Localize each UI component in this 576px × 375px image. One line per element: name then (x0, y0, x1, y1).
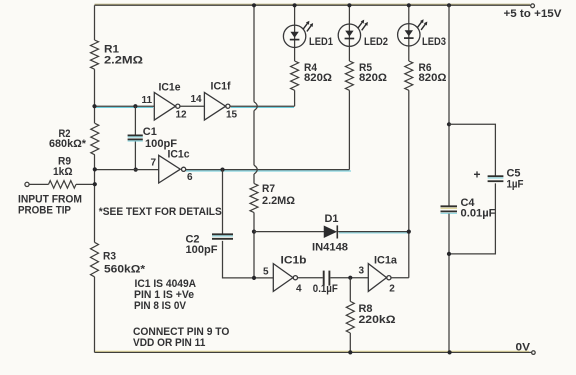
wire pin7 input (left rail to IC1c) (95, 169, 159, 171)
label *SEE TEXT FOR DETAILS (99, 206, 222, 218)
pin label 4 (296, 284, 302, 295)
resistor R5 (345, 61, 353, 90)
svg-text:IC1e: IC1e (159, 82, 181, 94)
resistor R7 (250, 184, 258, 213)
wire left rail segment (R1 to R2) (94, 69, 96, 123)
pin label 7 (151, 157, 157, 168)
label C5 1µF (507, 167, 524, 190)
svg-text:560kΩ*: 560kΩ* (104, 263, 146, 275)
label LED3 (422, 36, 446, 48)
pin label 3 (359, 266, 365, 277)
resistor R2 (91, 123, 99, 155)
note VDD OR PIN 11 (133, 337, 205, 349)
resistor R4 (291, 61, 299, 90)
svg-text:100pF: 100pF (186, 244, 218, 256)
op-amp inverter IC1a (368, 264, 391, 292)
svg-text:LED1: LED1 (309, 36, 333, 48)
svg-text:1kΩ: 1kΩ (53, 166, 73, 178)
wire C5 top lead (449, 124, 495, 175)
svg-text:7: 7 (151, 157, 157, 168)
capacitor C4 (441, 206, 458, 213)
svg-text:1µF: 1µF (507, 178, 524, 190)
label IC1e (159, 82, 181, 94)
svg-text:4: 4 (296, 284, 302, 295)
wire hop over pin6 net (254, 165, 257, 174)
resistor R6 (405, 61, 413, 90)
label R4 820Ω (304, 62, 332, 84)
wire D1 anode lead (254, 231, 324, 233)
svg-text:0.1µF: 0.1µF (313, 283, 338, 295)
svg-text:0.01µF: 0.01µF (461, 207, 496, 219)
label R5 820Ω (359, 62, 387, 84)
wire IC1a output to LED3 branch (391, 277, 409, 279)
label C4 0.01µF (461, 197, 496, 220)
wire R8 lower lead (349, 333, 351, 352)
svg-text:*SEE TEXT FOR DETAILS: *SEE TEXT FOR DETAILS (99, 206, 222, 218)
svg-text:D1: D1 (325, 213, 339, 225)
node junction left rail / pin7 wire (93, 167, 97, 171)
wire middle rail (hop2 to R7) (253, 174, 255, 184)
node junction input / left rail (93, 182, 97, 186)
label IC1f (211, 81, 231, 93)
node junction C4 rail / 0V rail (448, 350, 452, 354)
pin label 12 (176, 109, 188, 120)
wire C2 upper lead (222, 170, 224, 234)
svg-text:PROBE TIP: PROBE TIP (18, 204, 71, 216)
svg-text:15: 15 (226, 109, 238, 120)
capacitor C2 (212, 234, 233, 239)
wire R9 to left rail (76, 183, 95, 185)
label INPUT FROM PROBE TIP (18, 194, 82, 217)
label IC1c (168, 148, 190, 160)
pin label 6 (187, 172, 193, 183)
capacitor C3 0.1uF (324, 271, 330, 286)
node junction left rail / pin11 wire (92, 104, 96, 108)
label R2 680kΩ* (49, 128, 87, 150)
node junction R8 / 0V rail (348, 350, 352, 354)
wire R8 upper lead (349, 278, 351, 302)
wire IC1b output to C3 (298, 277, 323, 279)
wire C2 lower lead and run to IC1b input (223, 241, 274, 278)
label IC1a (374, 255, 398, 267)
wire pin11 input (left rail to IC1e) (95, 106, 155, 107)
svg-text:PIN 8 IS 0V: PIN 8 IS 0V (134, 300, 187, 312)
note PIN 8 IS 0V (134, 300, 187, 312)
label LED2 (364, 36, 388, 48)
wire LED3 branch upper lead (408, 5, 410, 61)
svg-text:12: 12 (176, 109, 188, 120)
terminal +V supply (531, 4, 535, 8)
wire probe to R9 (29, 183, 48, 185)
wire C4 rail upper (448, 5, 450, 206)
label IN4148 (312, 242, 348, 254)
node junction LED3 / +V (407, 3, 411, 7)
wire C4 rail lower (448, 214, 450, 353)
svg-text:IC1b: IC1b (281, 255, 307, 267)
note PIN 1 IS +Ve (134, 289, 194, 301)
terminal 0V (532, 351, 536, 355)
svg-text:14: 14 (191, 94, 203, 105)
svg-text:+5 to +15V: +5 to +15V (504, 8, 563, 20)
pin label 11 (142, 95, 153, 106)
svg-text:IC1f: IC1f (211, 81, 231, 93)
label IC1b (281, 255, 307, 267)
label LED1 (309, 36, 333, 48)
svg-text:2: 2 (389, 284, 395, 295)
resistor R1 (91, 40, 99, 69)
node junction D1 anode branch (252, 230, 256, 234)
node junction middle rail / +V (252, 3, 256, 7)
op-amp inverter IC1c (159, 155, 186, 183)
label C2 100pF (186, 234, 218, 256)
wire left rail segment (R3 to bottom) (94, 277, 96, 353)
svg-text:VDD OR PIN 11: VDD OR PIN 11 (133, 337, 205, 349)
label +5 to +15V (504, 8, 563, 20)
svg-text:3: 3 (359, 266, 365, 277)
svg-text:IC1c: IC1c (168, 148, 190, 160)
svg-text:11: 11 (142, 95, 153, 106)
wire IC1e out to IC1f in (pin 14 net) (180, 105, 204, 107)
diode D1 (324, 225, 337, 238)
svg-text:LED3: LED3 (422, 36, 446, 48)
label 0.1µF (313, 283, 338, 295)
svg-text:R8: R8 (359, 303, 373, 315)
node junction LED2 / +V (347, 3, 351, 7)
capacitor C5 polarity + (474, 168, 481, 182)
resistor R3 (91, 242, 99, 276)
wire C1 lower lead (134, 142, 136, 170)
node junction C1 bottom / pin7 wire (134, 168, 138, 172)
wire D1 cathode to LED3 branch (338, 232, 409, 233)
resistor R9 (49, 181, 77, 189)
node junction C4 rail / +V (447, 3, 451, 7)
wire LED1 branch lower lead (R4 to pin15 net) (294, 90, 296, 106)
wire C1 upper lead (134, 106, 136, 135)
svg-text:820Ω: 820Ω (419, 72, 447, 84)
svg-text:R7: R7 (262, 183, 275, 195)
resistor R8 (346, 301, 354, 333)
wire middle rail (R7 to IC1b input net) (253, 213, 255, 278)
capacitor C5 (488, 176, 504, 181)
wire C5 bottom lead (449, 183, 495, 254)
wire middle rail (hop1 to hop2) (253, 111, 255, 166)
svg-text:IC1a: IC1a (374, 255, 398, 267)
label R6 820Ω (419, 62, 447, 84)
svg-text:LED2: LED2 (364, 36, 388, 48)
pin label 15 (226, 109, 238, 120)
wire bottom 0V rail (95, 351, 532, 352)
note IC1 IS 4049A (135, 278, 197, 290)
wire middle rail (top to hop1) (253, 5, 255, 102)
label C1 100pF (143, 126, 177, 150)
wire IC1f output to LED1 branch (230, 106, 295, 107)
svg-text:0V: 0V (516, 342, 531, 354)
svg-text:2.2MΩ: 2.2MΩ (104, 55, 143, 67)
label R1 2.2MΩ (104, 44, 143, 67)
svg-text:820Ω: 820Ω (359, 72, 387, 84)
label R3 560kΩ* (103, 251, 146, 276)
pin label 14 (191, 94, 203, 105)
svg-text:220kΩ: 220kΩ (359, 314, 396, 326)
svg-text:IN4148: IN4148 (312, 242, 348, 254)
op-amp inverter IC1e (154, 92, 180, 120)
svg-text:R1: R1 (104, 44, 119, 56)
wire LED2 branch upper lead (348, 5, 350, 61)
svg-text:R3: R3 (103, 251, 116, 263)
node junction C5 loop bottom (447, 252, 451, 256)
svg-text:680kΩ*: 680kΩ* (49, 138, 87, 150)
LED LED3 (398, 19, 428, 46)
svg-text:6: 6 (187, 172, 193, 183)
LED LED1 (283, 21, 313, 48)
label 0V (516, 342, 531, 354)
terminal input probe tip (25, 182, 29, 186)
capacitor C1 (128, 135, 143, 141)
op-amp inverter IC1f (204, 92, 230, 120)
wire left rail segment (top to R1) (94, 5, 96, 40)
node junction C5 loop top (447, 122, 451, 126)
label R7 2.2MΩ (262, 183, 295, 207)
wire LED3 branch lower lead (R6 to IC1a output) (408, 90, 410, 277)
wire left rail segment (R2 to R3) (94, 155, 96, 243)
label R9 1kΩ (53, 156, 73, 178)
node junction C2 branch on IC1c output (220, 168, 224, 172)
svg-text:C1: C1 (143, 126, 157, 138)
LED LED2 (338, 20, 368, 47)
wire IC1c output to LED2 branch (186, 170, 351, 171)
wire top +V rail (95, 4, 531, 5)
node junction C1 top (133, 104, 137, 108)
wire LED1 branch upper lead (294, 5, 296, 61)
pin label 5 (263, 267, 269, 278)
pin label 2 (389, 284, 395, 295)
node junction LED1 / +V (293, 3, 297, 7)
node junction middle rail on IC1b input net (252, 276, 256, 280)
note CONNECT PIN 9 TO (133, 326, 230, 338)
label R8 220kΩ (359, 303, 396, 326)
svg-text:820Ω: 820Ω (304, 72, 332, 84)
svg-text:2.2MΩ: 2.2MΩ (262, 195, 295, 207)
wire C3 to IC1a input (330, 277, 368, 279)
label D1 (325, 213, 339, 225)
node junction D1 cathode / LED3 branch (407, 230, 411, 234)
svg-text:5: 5 (263, 267, 269, 278)
node junction R8 branch (348, 276, 352, 280)
op-amp inverter IC1b (273, 264, 297, 292)
wire hop over pin15 net (254, 102, 257, 111)
svg-text:+: + (474, 168, 481, 182)
wire LED2 branch lower lead (R5 to pin6 net) (348, 90, 350, 169)
